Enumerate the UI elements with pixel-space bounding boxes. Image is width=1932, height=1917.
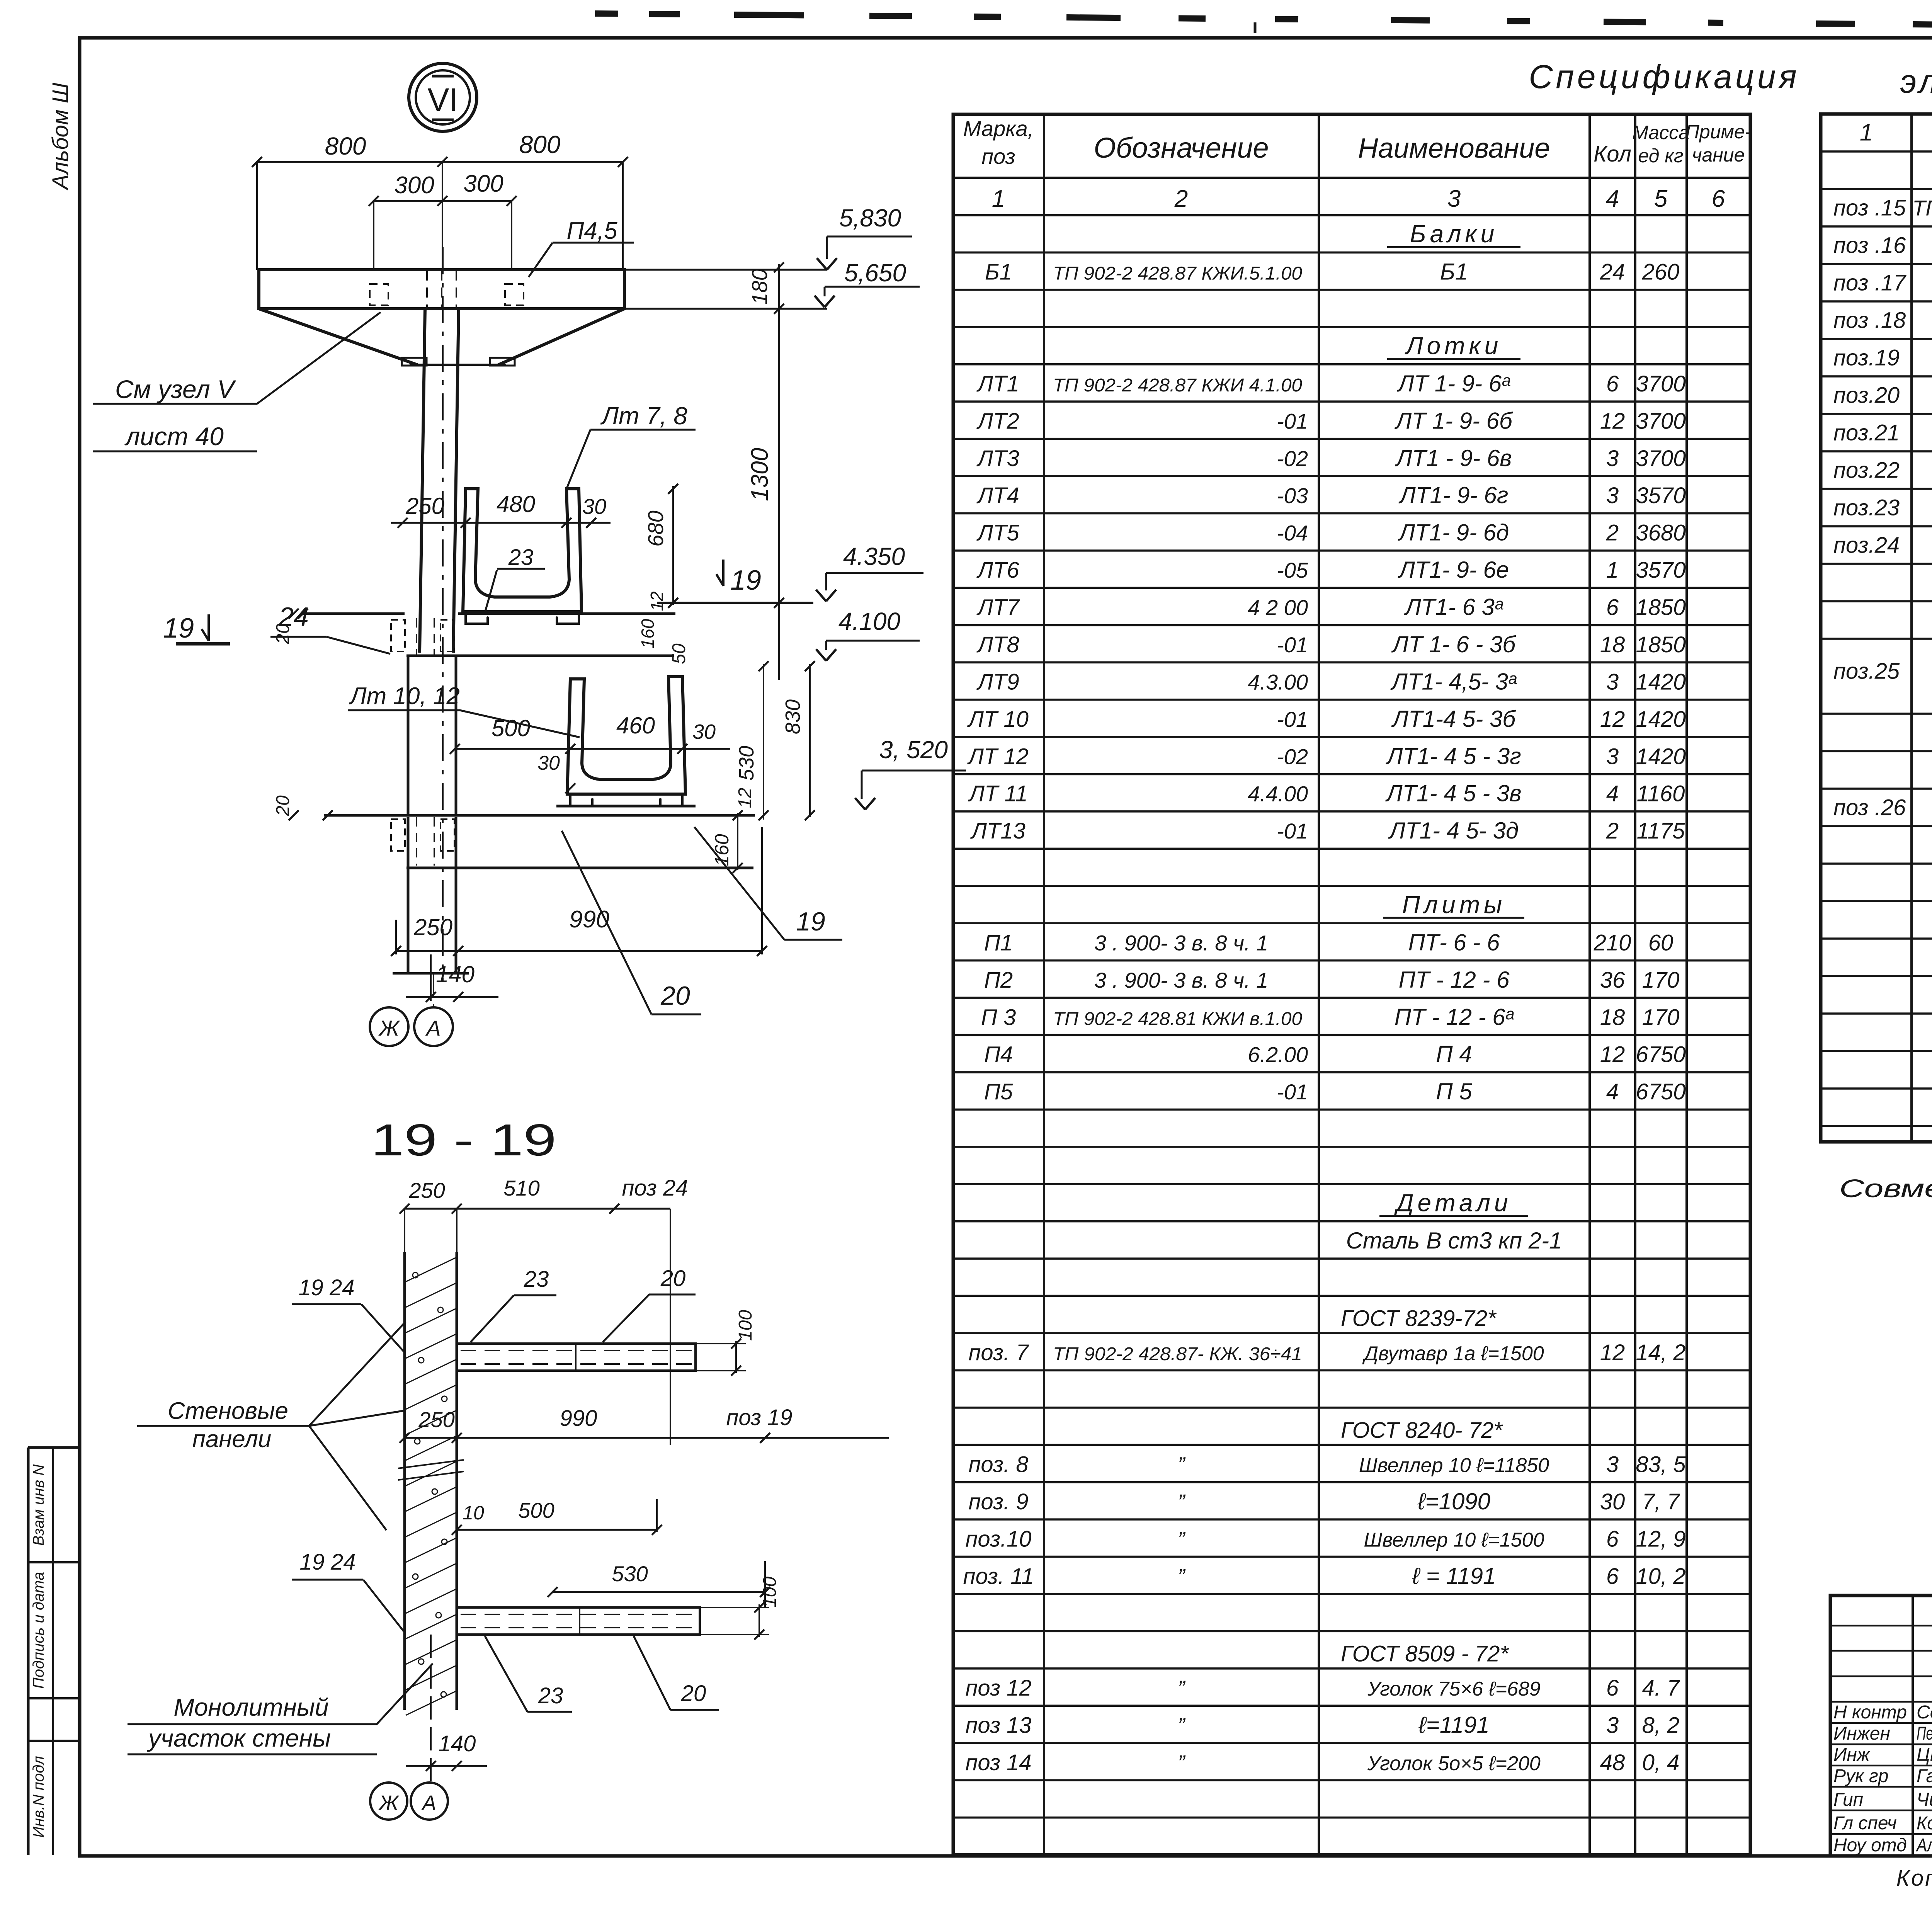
svg-text:1: 1: [1860, 119, 1873, 146]
svg-text:510: 510: [503, 1176, 539, 1200]
grid circle А: [414, 1007, 453, 1046]
svg-text:поз 12: поз 12: [965, 1675, 1031, 1701]
svg-text:ЛТ1- 9- 6г: ЛТ1- 9- 6г: [1398, 482, 1509, 508]
svg-text:3700: 3700: [1636, 371, 1685, 396]
lower trough ЛТ10-12 cross-section: [567, 677, 685, 794]
svg-text:2: 2: [1606, 520, 1619, 546]
anchor plate dashed left: [370, 284, 388, 305]
svg-text:1420: 1420: [1636, 744, 1685, 769]
svg-text:500: 500: [492, 715, 530, 741]
svg-text:-01: -01: [1277, 819, 1308, 843]
svg-text:170: 170: [1642, 968, 1680, 993]
svg-text:830: 830: [781, 699, 804, 734]
svg-text:6750: 6750: [1636, 1042, 1685, 1067]
svg-text:П 5: П 5: [1436, 1078, 1472, 1104]
svg-text:”: ”: [1178, 1490, 1186, 1514]
svg-text:поз .26: поз .26: [1833, 795, 1906, 820]
svg-text:поз .17: поз .17: [1833, 270, 1907, 296]
svg-text:680: 680: [643, 510, 668, 546]
svg-text:Приме-: Приме-: [1685, 121, 1752, 143]
svg-text:Альбом Ш: Альбом Ш: [48, 82, 73, 191]
svg-text:-01: -01: [1277, 633, 1308, 657]
dimension 250 990: [396, 950, 762, 952]
svg-text:Альтшуллер: Альтшуллер: [1915, 1835, 1932, 1856]
svg-text:3: 3: [1606, 1452, 1619, 1477]
svg-text:ТП 902-2 428.81 КЖИ в.1.00: ТП 902-2 428.81 КЖИ в.1.00: [1053, 1009, 1302, 1029]
svg-text:П4,5: П4,5: [566, 218, 617, 244]
svg-text:ЛТ1- 4 5 - 3в: ЛТ1- 4 5 - 3в: [1385, 781, 1521, 806]
grid circle Ж section: [370, 1783, 407, 1820]
svg-text:6: 6: [1712, 185, 1725, 212]
svg-text:4.4.00: 4.4.00: [1248, 782, 1308, 806]
scanner dashed line along very top edge: [595, 10, 618, 17]
svg-text:7, 7: 7, 7: [1642, 1489, 1680, 1514]
svg-text:12: 12: [1600, 408, 1625, 434]
svg-text:19: 19: [163, 613, 194, 644]
svg-text:ТП 902-2 428.87 КЖИ 4.1.00: ТП 902-2 428.87 КЖИ 4.1.00: [1053, 375, 1302, 396]
vertical dim 830: [809, 664, 811, 817]
svg-text:поз: поз: [981, 144, 1015, 168]
svg-text:П2: П2: [984, 968, 1013, 993]
svg-text:-01: -01: [1277, 707, 1308, 731]
svg-text:12: 12: [1600, 1340, 1625, 1365]
svg-text:ЛТ6: ЛТ6: [976, 558, 1019, 583]
svg-text:12: 12: [1600, 707, 1625, 732]
svg-text:ПТ - 12 - 6ᵃ: ПТ - 12 - 6ᵃ: [1395, 1004, 1514, 1030]
svg-text:170: 170: [1642, 1005, 1680, 1030]
slab П4,5 outline: [259, 270, 624, 309]
svg-text:Уголок 75×6 ℓ=689: Уголок 75×6 ℓ=689: [1367, 1678, 1541, 1700]
svg-text:5,830: 5,830: [839, 204, 901, 232]
svg-text:ЛТ7: ЛТ7: [976, 595, 1020, 620]
svg-text:800: 800: [325, 132, 366, 160]
svg-text:-05: -05: [1277, 558, 1308, 582]
svg-text:3: 3: [1606, 1713, 1619, 1738]
svg-text:20: 20: [273, 795, 293, 816]
svg-text:Б1: Б1: [985, 260, 1012, 285]
svg-text:ПТ- 6 - 6: ПТ- 6 - 6: [1408, 929, 1500, 955]
svg-text:Детали: Детали: [1394, 1189, 1512, 1216]
svg-text:19: 19: [730, 565, 761, 596]
svg-text:ЛТ1-4 5- 3б: ЛТ1-4 5- 3б: [1391, 706, 1517, 732]
svg-text:3: 3: [1606, 483, 1619, 508]
svg-text:”: ”: [1178, 1750, 1186, 1775]
wall below floor 3.520: [407, 817, 410, 973]
svg-text:6: 6: [1606, 595, 1619, 620]
svg-text:поз.22: поз.22: [1833, 458, 1900, 483]
svg-text:поз.25: поз.25: [1833, 659, 1900, 684]
axis to circles 19-19: [430, 1635, 432, 1783]
svg-text:ЛТ2: ЛТ2: [976, 408, 1019, 434]
dimension 500 460 30 lower trough: [455, 748, 730, 750]
svg-text:20: 20: [660, 1266, 686, 1291]
svg-text:-01: -01: [1277, 409, 1308, 433]
svg-text:ЛТ 10: ЛТ 10: [967, 707, 1029, 732]
svg-text:3: 3: [1606, 446, 1619, 471]
svg-text:ТП 902-2 428.87- КЖ. 36÷41: ТП 902-2 428.87- КЖ. 36÷41: [1053, 1344, 1302, 1364]
svg-text:460: 460: [616, 713, 655, 738]
svg-text:Взам инв N: Взам инв N: [30, 1465, 47, 1546]
dimension 140: [406, 996, 498, 998]
svg-text:4. 7: 4. 7: [1642, 1675, 1680, 1701]
leader from поз 24 to beam: [670, 1209, 671, 1445]
svg-text:поз. 9: поз. 9: [969, 1489, 1029, 1514]
upper trough ЛТ7-8 cross-section: [463, 489, 582, 612]
svg-text:Чирков: Чирков: [1917, 1789, 1932, 1810]
svg-text:19: 19: [796, 907, 825, 936]
svg-text:”: ”: [1178, 1676, 1186, 1700]
title block signature column lines: [1912, 1596, 1914, 1856]
title block signature row lines: [1830, 1625, 1932, 1627]
svg-text:Лт 10, 12: Лт 10, 12: [349, 683, 460, 709]
svg-text:6750: 6750: [1636, 1079, 1685, 1104]
outer frame border: [78, 37, 82, 1857]
dimension 250 510 поз 24: [405, 1208, 670, 1210]
column shaft: [420, 309, 425, 653]
dimension 300+300: [374, 200, 512, 202]
svg-text:2: 2: [1606, 818, 1619, 844]
spec table column lines: [1043, 114, 1045, 1855]
wall concrete dots: [413, 1272, 418, 1278]
svg-text:поз. 8: поз. 8: [969, 1452, 1029, 1477]
svg-text:20: 20: [273, 623, 293, 645]
svg-text:19 24: 19 24: [298, 1275, 354, 1300]
svg-text:6: 6: [1606, 1526, 1619, 1551]
svg-text:23: 23: [538, 1683, 563, 1708]
svg-text:ЛТ1- 4,5- 3ᵃ: ЛТ1- 4,5- 3ᵃ: [1390, 668, 1517, 694]
svg-text:20: 20: [660, 981, 690, 1010]
svg-text:Гл спеч: Гл спеч: [1833, 1813, 1897, 1834]
svg-text:5,650: 5,650: [844, 259, 906, 287]
svg-text:12: 12: [735, 788, 755, 808]
svg-text:50: 50: [669, 643, 689, 664]
spec table header lines: [953, 177, 1750, 179]
svg-text:Инв.N подл: Инв.N подл: [30, 1756, 47, 1838]
svg-text:990: 990: [569, 906, 609, 933]
svg-text:Ж: Ж: [378, 1016, 400, 1040]
svg-text:1420: 1420: [1636, 707, 1685, 732]
dimension 140 section: [406, 1765, 487, 1767]
svg-text:48: 48: [1600, 1750, 1625, 1775]
svg-text:8, 2: 8, 2: [1642, 1713, 1680, 1738]
svg-text:1: 1: [992, 185, 1005, 212]
svg-text:3: 3: [1606, 744, 1619, 769]
svg-text:Масса: Масса: [1632, 122, 1689, 143]
svg-text:поз .15: поз .15: [1833, 196, 1906, 221]
svg-text:ЛТ1- 9- 6е: ЛТ1- 9- 6е: [1398, 557, 1509, 583]
upper beam поз 23/20 side view: [457, 1344, 696, 1371]
svg-text:ЛТ3: ЛТ3: [976, 446, 1019, 471]
svg-text:30: 30: [537, 752, 560, 774]
title block outer border: [1830, 1596, 1932, 1856]
svg-text:500: 500: [518, 1498, 554, 1522]
svg-text:См узел V: См узел V: [115, 375, 236, 403]
grid circle А section: [411, 1783, 448, 1820]
svg-text:П 4: П 4: [1436, 1041, 1472, 1067]
svg-text:ℓ=1090: ℓ=1090: [1417, 1488, 1490, 1514]
svg-text:100: 100: [735, 1310, 756, 1341]
vertical dimension 680: [672, 486, 674, 605]
spec table row lines: [953, 252, 1750, 254]
svg-text:1300: 1300: [747, 448, 773, 501]
svg-text:Семенова: Семенова: [1917, 1702, 1932, 1723]
svg-text:поз 14: поз 14: [965, 1750, 1031, 1775]
svg-text:-02: -02: [1277, 744, 1308, 769]
svg-text:6.2.00: 6.2.00: [1248, 1043, 1308, 1067]
svg-text:”: ”: [1178, 1452, 1186, 1476]
svg-text:36: 36: [1600, 968, 1625, 993]
svg-text:2: 2: [1174, 185, 1188, 212]
axis line to grid circles: [433, 973, 434, 1007]
svg-text:3700: 3700: [1636, 408, 1685, 434]
svg-text:250: 250: [408, 1178, 445, 1203]
svg-text:6: 6: [1606, 371, 1619, 396]
svg-text:210: 210: [1594, 930, 1631, 955]
svg-text:ЛТ1 - 9- 6в: ЛТ1 - 9- 6в: [1395, 445, 1512, 471]
svg-text:530: 530: [735, 746, 758, 781]
svg-text:поз 19: поз 19: [726, 1405, 792, 1430]
right table outer border: [1821, 114, 1932, 1142]
svg-text:12: 12: [647, 591, 667, 611]
svg-text:250: 250: [413, 914, 452, 940]
wall break marks: [398, 1460, 464, 1468]
lower trough feet on pads: [570, 794, 592, 806]
svg-text:”: ”: [1178, 1527, 1186, 1551]
svg-text:990: 990: [560, 1406, 597, 1431]
svg-text:4 2 00: 4 2 00: [1248, 595, 1308, 620]
svg-text:800: 800: [519, 131, 561, 158]
dimension 530 lower: [553, 1591, 765, 1593]
svg-text:поз. 11: поз. 11: [963, 1564, 1034, 1589]
svg-text:поз 13: поз 13: [965, 1713, 1031, 1738]
svg-text:300: 300: [463, 170, 503, 197]
svg-text:Марка,: Марка,: [963, 116, 1034, 141]
svg-text:3700: 3700: [1636, 446, 1685, 471]
svg-text:4.3.00: 4.3.00: [1248, 670, 1308, 694]
svg-text:ЛТ 11: ЛТ 11: [968, 781, 1028, 806]
svg-text:ЛТ1- 4 5- 3д: ЛТ1- 4 5- 3д: [1388, 818, 1519, 844]
svg-text:10, 2: 10, 2: [1636, 1564, 1686, 1589]
svg-text:480: 480: [497, 491, 535, 517]
svg-text:160: 160: [638, 619, 658, 648]
svg-text:6: 6: [1606, 1564, 1619, 1589]
floor slab at level 3.520: [324, 814, 755, 817]
svg-text:А: А: [425, 1016, 440, 1040]
svg-text:Копировал: Копировал: [1896, 1866, 1932, 1891]
svg-text:Б1: Б1: [1440, 259, 1468, 285]
svg-text:Обозначение: Обозначение: [1094, 132, 1269, 164]
svg-text:ℓ = 1191: ℓ = 1191: [1412, 1563, 1496, 1589]
svg-text:ЛТ 12: ЛТ 12: [967, 744, 1029, 769]
vertical dimension 1300 right side: [778, 264, 780, 680]
svg-text:поз.24: поз.24: [1833, 533, 1900, 558]
svg-text:поз 24: поз 24: [622, 1175, 688, 1201]
vertical dim 100 lower beam: [759, 1604, 760, 1637]
bolt plates dashed at 4.100: [391, 620, 405, 651]
svg-text:1175: 1175: [1637, 818, 1685, 844]
svg-text:3 . 900- 3 в. 8 ч. 1: 3 . 900- 3 в. 8 ч. 1: [1094, 968, 1268, 992]
svg-text:Козловичер: Козловичер: [1917, 1813, 1932, 1834]
svg-text:20: 20: [681, 1681, 706, 1706]
svg-text:поз.21: поз.21: [1833, 420, 1900, 446]
svg-text:ЛТ1- 9- 6д: ЛТ1- 9- 6д: [1398, 520, 1509, 546]
svg-text:Инж: Инж: [1833, 1745, 1871, 1765]
anchor bolts dashed in slab: [426, 270, 428, 307]
svg-text:4: 4: [1606, 781, 1619, 806]
svg-text:18: 18: [1600, 1005, 1625, 1030]
svg-text:-04: -04: [1277, 521, 1308, 545]
svg-text:Лотки: Лотки: [1405, 332, 1502, 360]
svg-text:Петропавловск: Петропавловск: [1917, 1723, 1932, 1744]
svg-text:ЛТ9: ЛТ9: [976, 669, 1019, 694]
svg-text:260: 260: [1642, 260, 1680, 285]
svg-text:ГОСТ 8509 - 72*: ГОСТ 8509 - 72*: [1341, 1641, 1509, 1667]
lower beam поз 23/20 side view: [457, 1607, 700, 1635]
svg-text:23: 23: [508, 545, 534, 570]
svg-text:Швеллер 10 ℓ=11850: Швеллер 10 ℓ=11850: [1359, 1454, 1549, 1476]
svg-text:100: 100: [760, 1577, 780, 1607]
svg-text:3 . 900- 3 в. 8 ч. 1: 3 . 900- 3 в. 8 ч. 1: [1094, 930, 1268, 955]
upper trough feet: [466, 612, 488, 624]
svg-text:14, 2: 14, 2: [1636, 1340, 1686, 1365]
svg-text:23: 23: [524, 1267, 549, 1292]
svg-text:П5: П5: [984, 1079, 1013, 1104]
svg-text:250: 250: [418, 1407, 454, 1432]
svg-text:ЛТ8: ЛТ8: [976, 632, 1019, 657]
svg-text:участок стены: участок стены: [147, 1724, 331, 1752]
svg-text:ЛТ13: ЛТ13: [970, 818, 1026, 844]
svg-text:Цветкова: Цветкова: [1917, 1745, 1932, 1765]
svg-text:ЛТ1: ЛТ1: [976, 371, 1019, 396]
svg-text:24: 24: [1600, 260, 1625, 285]
svg-text:”: ”: [1178, 1713, 1186, 1737]
svg-text:6: 6: [1606, 1675, 1619, 1701]
floor slab at level 4.100: [303, 612, 405, 615]
svg-text:поз.23: поз.23: [1833, 495, 1900, 520]
svg-text:3570: 3570: [1636, 483, 1685, 508]
vertical dim 530: [763, 664, 764, 820]
svg-text:ГОСТ 8240- 72*: ГОСТ 8240- 72*: [1341, 1418, 1503, 1443]
svg-text:Гарбуз: Гарбуз: [1917, 1766, 1932, 1786]
svg-text:лист 40: лист 40: [124, 422, 224, 451]
svg-text:19 - 19: 19 - 19: [371, 1115, 556, 1165]
anchor plate dashed right: [505, 284, 524, 305]
wall section (hatched): [403, 1252, 406, 1710]
svg-text:ЛТ 1- 9- 6б: ЛТ 1- 9- 6б: [1394, 408, 1513, 434]
svg-text:Балки: Балки: [1410, 220, 1498, 248]
svg-text:0, 4: 0, 4: [1642, 1750, 1680, 1775]
wall below floor 4.100: [407, 656, 410, 815]
svg-text:панели: панели: [192, 1426, 272, 1453]
svg-text:Подпись и дата: Подпись и дата: [30, 1572, 47, 1689]
svg-text:поз.19: поз.19: [1833, 345, 1900, 371]
dimension 250 480 30 in upper trough: [391, 522, 611, 524]
dimension 250 990 поз 19: [405, 1437, 889, 1439]
svg-text:чание: чание: [1692, 144, 1745, 166]
svg-text:Кол: Кол: [1594, 141, 1631, 167]
svg-text:83, 5: 83, 5: [1636, 1452, 1686, 1477]
svg-text:VI: VI: [427, 82, 458, 118]
svg-text:ЛТ 1- 6 - 3б: ЛТ 1- 6 - 3б: [1391, 631, 1517, 657]
column corbel seat: [410, 364, 506, 366]
svg-text:1850: 1850: [1636, 595, 1685, 620]
svg-text:ТП 902-2 428.87 КЖИ.5.1.00: ТП 902-2 428.87 КЖИ.5.1.00: [1053, 264, 1302, 284]
svg-text:поз.10: поз.10: [965, 1526, 1031, 1551]
svg-text:3570: 3570: [1636, 558, 1685, 583]
svg-text:-01: -01: [1277, 1080, 1308, 1104]
svg-text:Рук гр: Рук гр: [1833, 1766, 1888, 1786]
svg-text:ПТ - 12 - 6: ПТ - 12 - 6: [1399, 967, 1510, 993]
svg-text:4: 4: [1606, 185, 1619, 212]
svg-text:-03: -03: [1277, 483, 1308, 508]
svg-text:1: 1: [1606, 558, 1619, 583]
svg-text:530: 530: [612, 1561, 648, 1586]
svg-text:Монолитный: Монолитный: [173, 1693, 328, 1721]
svg-text:поз.20: поз.20: [1833, 383, 1900, 408]
svg-text:30: 30: [582, 494, 606, 519]
svg-text:Н контр: Н контр: [1833, 1702, 1907, 1723]
svg-text:Совместно с данным см лл К: Совместно с данным см лл КЖ-36 - 40: [1839, 1174, 1932, 1203]
svg-text:ЛТ1- 4 5 - 3г: ЛТ1- 4 5 - 3г: [1385, 743, 1521, 769]
svg-text:ЛТ1- 6 3ᵃ: ЛТ1- 6 3ᵃ: [1404, 594, 1503, 620]
svg-text:ЛТ5: ЛТ5: [976, 520, 1019, 546]
vertical dim 100 upper beam: [735, 1341, 737, 1373]
svg-text:”: ”: [1178, 1564, 1186, 1589]
svg-text:19 24: 19 24: [299, 1550, 355, 1575]
svg-text:12, 9: 12, 9: [1636, 1526, 1686, 1551]
svg-text:60: 60: [1648, 930, 1673, 955]
svg-text:Наименование: Наименование: [1358, 133, 1550, 164]
svg-text:4: 4: [1606, 1079, 1619, 1104]
svg-text:Сталь В ст3 кп 2-1: Сталь В ст3 кп 2-1: [1346, 1228, 1562, 1254]
svg-text:Ноу отд: Ноу отд: [1833, 1835, 1907, 1856]
dimension 800+800 top: [257, 161, 623, 163]
svg-text:поз .16: поз .16: [1833, 233, 1906, 258]
svg-text:4.350: 4.350: [843, 543, 905, 570]
svg-text:Швеллер 10 ℓ=1500: Швеллер 10 ℓ=1500: [1364, 1529, 1544, 1551]
svg-text:Спецификация: Спецификация: [1529, 58, 1799, 95]
svg-text:Гип: Гип: [1833, 1789, 1863, 1810]
svg-text:П 3: П 3: [981, 1005, 1016, 1030]
svg-text:300: 300: [394, 172, 434, 199]
svg-text:140: 140: [436, 961, 474, 987]
svg-text:поз. 7: поз. 7: [969, 1340, 1030, 1365]
svg-text:10: 10: [463, 1502, 484, 1524]
svg-text:П1: П1: [984, 930, 1013, 955]
scanner mark top centre: [1254, 22, 1257, 33]
svg-text:поз .18: поз .18: [1833, 308, 1906, 333]
svg-text:Лт 7, 8: Лт 7, 8: [600, 402, 687, 430]
bolt plates dashed at 3.520: [391, 819, 405, 851]
svg-text:3680: 3680: [1636, 520, 1685, 546]
svg-text:250: 250: [405, 493, 444, 519]
svg-text:18: 18: [1600, 632, 1625, 657]
svg-text:Стеновые: Стеновые: [168, 1398, 288, 1424]
svg-text:5: 5: [1654, 185, 1668, 212]
svg-text:ГОСТ 8239-72*: ГОСТ 8239-72*: [1341, 1306, 1497, 1331]
svg-text:ед кг: ед кг: [1638, 145, 1683, 167]
svg-text:140: 140: [439, 1731, 476, 1756]
dimension 10 500: [457, 1529, 657, 1531]
svg-text:1850: 1850: [1636, 632, 1685, 657]
svg-text:Ж: Ж: [378, 1791, 400, 1815]
svg-text:1160: 1160: [1637, 781, 1685, 806]
svg-text:30: 30: [692, 720, 716, 743]
svg-text:Инжен: Инжен: [1833, 1723, 1890, 1744]
spec table outer border: [953, 114, 1750, 1855]
svg-text:Плиты: Плиты: [1402, 891, 1506, 919]
left margin stamp boxes: [27, 1448, 30, 1855]
